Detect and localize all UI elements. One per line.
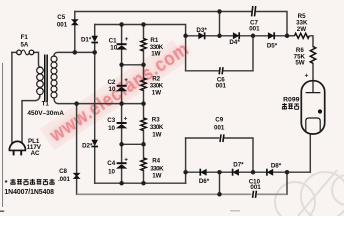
resistor R3 [141,118,146,131]
svg-text:C9: C9 [215,117,223,124]
node N1 dots [119,181,124,186]
wire left side from fuse down to plug [11,52,13,143]
svg-text:2W: 2W [297,26,306,33]
node top rail junction [217,9,222,14]
capacitor C6 [219,67,223,74]
svg-text:*: * [5,178,8,187]
svg-text:330K: 330K [150,124,164,131]
wire fuse right lead to transformer primary top [34,52,40,67]
capacitor C4 [117,162,127,164]
diode D2 [91,140,98,146]
resistor R2 [141,78,146,90]
scan artifact dash bottom [230,210,240,212]
capacitor C5 [71,19,79,25]
capacitor C7 [252,6,256,16]
wire diode chain top [186,35,287,37]
svg-text:+: + [124,157,128,164]
node mid1 dots [119,63,124,68]
svg-text:.001: .001 [58,176,71,183]
node P1 rail dots [119,22,124,27]
svg-text:10: 10 [108,169,115,176]
wire mid rail 1 [122,64,144,66]
diode D3 [198,32,204,39]
node P1 drop junction [183,34,188,39]
diode D5 [268,32,274,39]
wire drop to bottom rail [219,172,221,194]
capacitor C9 [220,134,224,142]
svg-text:AC: AC [31,150,40,157]
svg-text:C3: C3 [107,117,115,124]
svg-text:1W: 1W [152,131,161,138]
node bottom rail junction [217,192,222,197]
transformer T1 primary coil [37,67,44,95]
diode D8 [267,169,273,176]
wire R column [143,25,145,184]
capacitor C10 [253,191,257,198]
node D8-tube junction [285,170,290,175]
resistor R5 [295,33,310,38]
transformer T1 core [44,55,46,102]
transformer T1 secondary coil [51,56,57,98]
wire top rail drop to D3-D4 junction [219,12,221,36]
svg-text:D1*: D1* [81,37,92,44]
wire C column [121,25,123,184]
wire bottom rail riser right [286,172,288,194]
wire mid rail 2 [122,143,144,145]
resistor R6 [310,47,315,64]
wire secondary top to node A [54,52,95,56]
capacitor C3 [117,122,127,124]
label laser tube (CJK) [282,103,299,109]
svg-text:C5: C5 [57,14,65,21]
svg-text:1N4007/1N5408: 1N4007/1N5408 [4,189,54,196]
node D7-D8 junction [251,170,256,175]
svg-text:001: 001 [214,125,225,132]
laser tube R099 [301,81,324,134]
wire bottom rail gray [77,193,287,195]
wire C5 branch vertical [74,12,76,53]
node D4-D5 junction [251,34,256,39]
capacitor C1 [117,43,127,45]
svg-text:10: 10 [108,125,115,132]
wire C6 line [186,36,253,71]
capacitor C8 [73,173,81,179]
capacitor C2 [117,85,127,87]
diode D1 [91,36,98,42]
svg-text:D5*: D5* [267,42,278,49]
node N1 riser junction [183,170,188,175]
svg-text:001: 001 [249,25,260,32]
svg-text:D6*: D6* [199,178,210,185]
svg-text:+: + [124,77,128,84]
wire output node to R5 [287,35,294,37]
svg-text:+: + [305,73,309,80]
wire C8 branch vertical [76,104,78,195]
wire D column [94,25,96,184]
svg-text:450V–30mA: 450V–30mA [27,110,64,117]
scan artifact left edge line [2,63,4,207]
diode D6 [200,169,206,176]
svg-text:R4: R4 [152,158,160,165]
resistor R4 [141,158,146,171]
fuse F1 [17,50,34,55]
node D6-D7 junction [217,170,222,175]
svg-text:D8*: D8* [271,163,282,170]
wire transformer primary bottom to plug right prong [22,95,40,143]
svg-text:R099: R099 [283,96,299,103]
svg-text:1W: 1W [151,51,160,58]
svg-text:001: 001 [250,184,261,191]
wire vertical x185.6 C9 corner to N1 [185,138,187,183]
plug PL1 [9,141,26,155]
svg-text:C8: C8 [59,168,67,175]
wire tube cathode down [309,134,311,172]
svg-text:R2: R2 [152,76,160,83]
wire rail N1 [95,182,186,184]
node D3-D4 junction [217,34,222,39]
diode D4 [233,32,239,39]
svg-text:330K: 330K [150,166,164,173]
node mid2 dots [119,142,124,147]
svg-text:001: 001 [57,21,68,28]
svg-text:1W: 1W [152,173,161,180]
wire secondary bottom rail node B [54,98,144,104]
svg-text:001: 001 [216,83,227,90]
svg-text:D4*: D4* [229,39,240,46]
svg-text:+: + [124,116,128,123]
svg-text:D3*: D3* [196,27,207,34]
svg-text:F1: F1 [21,34,29,41]
wire R5 to R6 corner [310,36,313,47]
svg-text:1W: 1W [152,90,161,97]
wire R6 to tube anode [312,64,314,81]
wire second rail P1 and drop to C6 line [95,25,186,71]
svg-text:5A: 5A [20,42,28,49]
svg-text:10: 10 [109,86,116,93]
watermark gray stamp bottom-right [275,170,344,222]
svg-text:D7*: D7* [233,162,244,169]
wire fuse left lead [12,51,17,53]
wire top rail [75,12,287,36]
svg-text:C1: C1 [109,37,117,44]
wire C9 line [186,138,253,172]
svg-text:10: 10 [110,45,117,52]
svg-text:+: + [125,36,129,43]
wire diode chain bottom [186,171,311,173]
svg-text:5W: 5W [295,59,304,66]
svg-text:C4: C4 [107,160,115,167]
diode D7 [233,169,239,176]
svg-text:R3: R3 [152,116,160,123]
node A secondary top junctions [73,50,78,55]
node B dots [74,101,79,106]
node output O [285,34,290,39]
background pink haze along watermark [40,40,188,150]
resistor R1 [141,39,146,51]
svg-text:T1: T1 [42,101,50,108]
svg-text:C2: C2 [107,79,115,86]
svg-text:D2*: D2* [82,143,93,150]
